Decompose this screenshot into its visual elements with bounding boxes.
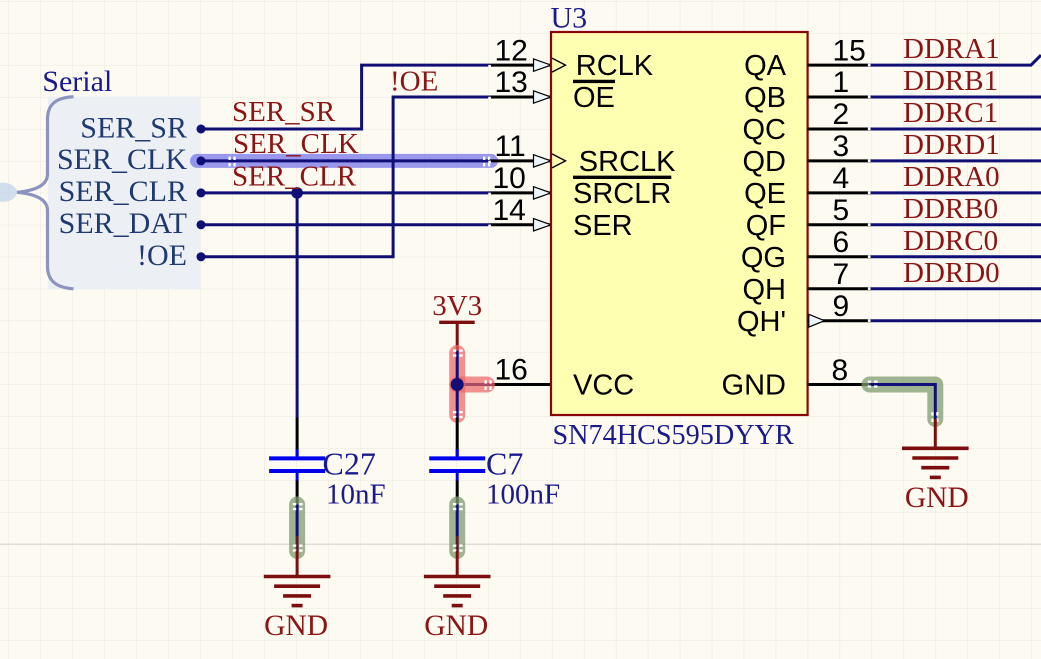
capacitor C27 pin1 (296, 418, 299, 457)
wire SER_CLR (201, 191, 490, 194)
clock chevron pin 11 (552, 154, 566, 168)
wire DDRD0 (870, 287, 1041, 290)
harness entry blob (0, 183, 17, 202)
selection marks SER_CLK wire (229, 157, 491, 167)
net highlight C27-gnd (green) (289, 505, 305, 552)
selection marks C7 wire (453, 503, 463, 552)
svg-text:SRCLK: SRCLK (579, 146, 676, 178)
svg-text:7: 7 (833, 258, 850, 291)
input direction arrows (534, 59, 552, 231)
svg-text:QB: QB (744, 82, 786, 114)
power 3V3 stem (456, 322, 459, 350)
svg-text:SRCLR: SRCLR (573, 178, 671, 210)
capacitor C7 pin2 (456, 473, 459, 481)
svg-text:SER_CLR: SER_CLR (232, 161, 357, 193)
wire DDRB1 (870, 96, 1041, 99)
wire DDRD1 (870, 159, 1041, 162)
svg-text:5: 5 (833, 194, 850, 227)
wire C27 to gnd (296, 505, 299, 537)
gnd symbol C7 bars (424, 577, 491, 606)
svg-text:SER_CLK: SER_CLK (57, 143, 187, 176)
svg-text:SER_SR: SER_SR (232, 96, 336, 128)
svg-text:!OE: !OE (137, 239, 187, 272)
output direction arrow QH' (809, 314, 825, 327)
svg-text:1: 1 (833, 66, 850, 99)
svg-text:C7: C7 (486, 446, 523, 482)
svg-text:DDRD1: DDRD1 (903, 129, 1000, 161)
svg-text:GND: GND (722, 370, 786, 402)
capacitor C7 plates (429, 456, 485, 460)
svg-text:DDRB1: DDRB1 (903, 65, 998, 97)
overline SRCLR (573, 176, 671, 179)
pin end markers (488, 64, 870, 322)
capacitor C27 pin2 (296, 473, 299, 481)
gnd symbol C27 stem (296, 551, 299, 577)
svg-text:GND: GND (264, 610, 328, 642)
harness signal dots (197, 125, 206, 134)
svg-text:QD: QD (743, 146, 787, 178)
svg-text:RCLK: RCLK (576, 50, 654, 82)
wire C27 branch (296, 193, 299, 418)
junction SER_CLR/C27 (291, 187, 303, 199)
svg-text:SER_SR: SER_SR (80, 111, 187, 144)
svg-text:GND: GND (424, 610, 488, 642)
clock chevron pin 12 (552, 58, 566, 72)
overline OE (573, 80, 615, 83)
svg-text:12: 12 (495, 34, 528, 67)
svg-text:QC: QC (743, 114, 787, 146)
gnd symbol C7 stem (456, 551, 459, 577)
svg-text:10nF: 10nF (326, 479, 386, 511)
svg-text:DDRD0: DDRD0 (903, 257, 1000, 289)
selection marks GND pin8 wire (868, 381, 939, 423)
svg-text:SER_CLK: SER_CLK (233, 128, 359, 160)
svg-text:DDRA1: DDRA1 (903, 33, 1000, 65)
wire DDRA0 (870, 191, 1041, 194)
selection marks C27 wire (293, 503, 303, 552)
wire !OE (201, 97, 490, 257)
wire GND pin8 (870, 385, 936, 420)
svg-text:13: 13 (495, 66, 528, 99)
svg-text:QA: QA (744, 50, 787, 82)
IC U3 body (551, 32, 808, 415)
selection marks 3V3 (453, 350, 492, 419)
major grid line (0, 543, 1041, 545)
svg-text:C27: C27 (323, 446, 376, 482)
svg-text:GND: GND (905, 482, 969, 514)
svg-text:4: 4 (833, 162, 850, 195)
svg-text:DDRB0: DDRB0 (903, 193, 998, 225)
svg-text:SER: SER (573, 210, 633, 242)
net highlight C7-gnd (green) (449, 505, 465, 552)
svg-text:SN74HCS595DYYR: SN74HCS595DYYR (553, 420, 794, 451)
right pin stubs (808, 65, 870, 384)
svg-text:QH': QH' (737, 306, 786, 338)
wire QH' (870, 319, 1041, 322)
svg-text:U3: U3 (551, 2, 588, 35)
wire 3V3 to VCC (457, 383, 491, 386)
wire DDRC0 (870, 255, 1041, 258)
svg-text:100nF: 100nF (486, 479, 560, 511)
svg-text:9: 9 (833, 290, 850, 323)
svg-text:QE: QE (744, 178, 786, 210)
gnd right stem (934, 419, 937, 448)
gnd symbol right bars (902, 448, 969, 477)
gnd symbol C27 bars (264, 577, 331, 606)
wire SER_CLK (201, 159, 490, 162)
svg-text:Serial: Serial (42, 65, 112, 98)
wire 3V3 vertical (456, 351, 459, 418)
svg-text:QH: QH (743, 274, 787, 306)
svg-text:3: 3 (833, 130, 850, 163)
svg-text:DDRC1: DDRC1 (903, 97, 998, 129)
svg-text:QG: QG (741, 242, 786, 274)
left pin stubs (490, 65, 552, 384)
wire SER_DAT (201, 223, 490, 226)
svg-text:15: 15 (833, 34, 866, 67)
net highlight SER_CLK (blue) (197, 154, 491, 168)
svg-text:10: 10 (493, 162, 526, 195)
wire DDRA1 (870, 55, 1041, 65)
svg-text:14: 14 (493, 194, 526, 227)
svg-text:3V3: 3V3 (432, 290, 482, 322)
net highlight 3V3 (red) (449, 353, 465, 415)
svg-text:SER_DAT: SER_DAT (59, 207, 187, 240)
svg-text:QF: QF (746, 210, 786, 242)
wire SER_SR (201, 65, 490, 129)
capacitor C7 pin1 (456, 418, 459, 457)
svg-text:DDRA0: DDRA0 (903, 161, 1000, 193)
net highlight GND pin8 (green) (870, 385, 936, 420)
svg-text:11: 11 (495, 130, 526, 163)
svg-text:VCC: VCC (573, 370, 634, 402)
harness body fill (48, 97, 201, 290)
svg-text:6: 6 (833, 226, 850, 259)
capacitor C27 plates (269, 456, 325, 460)
svg-text:!OE: !OE (390, 66, 438, 98)
wire C7 to gnd (456, 505, 459, 537)
svg-text:8: 8 (832, 354, 849, 387)
wire DDRB0 (870, 223, 1041, 226)
power 3V3 bar (439, 321, 475, 324)
svg-text:OE: OE (573, 82, 615, 114)
svg-text:DDRC0: DDRC0 (903, 225, 998, 257)
harness brace (17, 97, 74, 289)
svg-text:16: 16 (495, 354, 528, 387)
junction 3V3 (451, 378, 464, 391)
svg-text:2: 2 (833, 98, 850, 131)
wire DDRC1 (870, 128, 1041, 131)
svg-text:SER_CLR: SER_CLR (59, 175, 187, 208)
